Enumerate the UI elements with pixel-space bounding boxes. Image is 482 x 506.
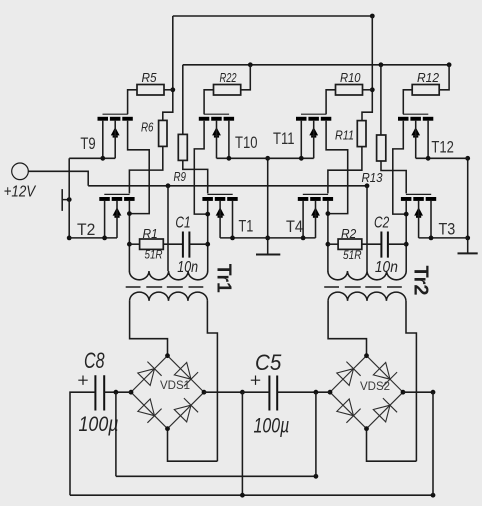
wire T4 drain down to Tr2 primary left (327, 201, 329, 272)
svg-text:T10: T10 (235, 133, 258, 152)
svg-text:R1: R1 (143, 226, 158, 241)
ground bar middle (256, 254, 280, 256)
resistor R9 (178, 134, 187, 160)
junction left rail / T2 source wire (67, 236, 72, 241)
polarity + C8 (78, 376, 87, 385)
resistor R11 (357, 121, 366, 147)
transistor T2 channel bars (99, 197, 134, 201)
wire T1 body lead (219, 201, 221, 238)
junction T2 drain / T9 drain (127, 211, 132, 216)
wire R13 bottom to T3 gate (381, 161, 406, 193)
transistor T12 channel bars (398, 117, 433, 121)
junction C5 / minus rail branch (314, 390, 319, 395)
junction VDS2 right vertex (401, 390, 406, 395)
wire top feedback line (node A) (173, 15, 372, 17)
svg-text:51R: 51R (145, 248, 163, 262)
wire left source rail (68, 158, 70, 238)
transformer Tr2 secondary winding (328, 292, 406, 301)
junction bus / Tr1 center tap (166, 183, 171, 188)
transistor T10 body-diode arrow (212, 127, 221, 135)
wire R12 right lead up to second line (439, 65, 449, 90)
junction T1 drain / C1 (205, 242, 210, 247)
wire T10 body lead (216, 121, 218, 159)
transistor T1 body-diode arrow (216, 207, 225, 215)
wire R10 right lead (363, 89, 373, 91)
wire T4 source lead (302, 201, 304, 238)
wire T1 source lead (232, 201, 234, 238)
wire second feedback line (node B) (183, 64, 449, 66)
svg-text:Tr2: Tr2 (410, 266, 432, 296)
transistor T3 gate line (406, 193, 431, 195)
transformer Tr1 core (126, 286, 204, 288)
junction T10 source (227, 156, 232, 161)
wire R11 bottom to T4 gate (328, 147, 362, 194)
wire T11 source to middle rail (268, 157, 314, 159)
svg-text:T11: T11 (273, 129, 295, 148)
transistor T9 body-diode arrow (111, 127, 120, 135)
transistor T3 channel bars (401, 197, 436, 201)
wire R10 left lead to T11 gate (326, 90, 335, 115)
wire R13 top lead (380, 65, 382, 135)
resistor R6 (159, 120, 167, 146)
svg-text:T2: T2 (77, 220, 95, 239)
wire C5 left lead (242, 391, 269, 393)
resistor R2 (338, 239, 362, 249)
transistor T11 gate line (301, 113, 326, 115)
wire T12 source to right rail (416, 157, 468, 159)
bridge rectifier VDS1 diamond (131, 356, 204, 429)
junction top line right (370, 14, 375, 19)
transformer Tr1 primary winding (129, 271, 207, 280)
transistor T1 gate line (207, 193, 232, 195)
wire +12V to bus (28, 171, 88, 186)
svg-text:100µ: 100µ (79, 413, 119, 436)
wire R22 right lead up to second line (241, 65, 251, 90)
wire T12 source lead (427, 121, 429, 159)
junction VDS1 top vertex (165, 353, 170, 358)
wire R5 right lead (164, 89, 173, 91)
junction T2 drain / R1 (127, 242, 132, 247)
junction VDS1 left vertex (129, 390, 134, 395)
svg-text:R6: R6 (141, 119, 154, 134)
wire Tr2 center tap (366, 186, 368, 271)
wire Tr1 secondary right down (207, 301, 217, 461)
wire T10 source lead (228, 121, 230, 159)
svg-text:R13: R13 (362, 170, 384, 185)
svg-text:+12V: +12V (4, 184, 37, 201)
svg-text:R12: R12 (417, 70, 440, 85)
bridge VDS2 diode 4 (373, 398, 397, 422)
wire T10 drain zigzag to T1 drain (194, 121, 207, 214)
wire T12 drain zigzag to T3 drain (393, 121, 406, 214)
junction VDS2 bottom vertex (364, 426, 369, 431)
svg-text:Tr1: Tr1 (213, 264, 235, 293)
wire T2 drain down to Tr1 primary left (128, 201, 130, 272)
junction second line right end / R12 (447, 62, 452, 67)
junction T12 source (426, 156, 431, 161)
junction T2 source (102, 236, 107, 241)
junction bus end / Tr2 center tap (365, 183, 370, 188)
svg-text:C8: C8 (84, 348, 105, 373)
transistor T10 channel bars (199, 117, 234, 121)
transistor T9 gate line (103, 113, 128, 115)
capacitor C2 plates (381, 232, 388, 258)
wire R9 top lead (182, 65, 184, 135)
transistor T9 channel bars (98, 117, 133, 121)
junction second line / R22 (248, 62, 253, 67)
wire VDS1 output down to plus rail (241, 392, 243, 495)
wire T4 source to middle rail (268, 237, 316, 239)
wire middle source rail (267, 158, 269, 254)
transistor T2 gate line (104, 193, 129, 195)
junction T1 drain / T10 drain (205, 212, 210, 217)
junction T11 source (299, 156, 304, 161)
junction R10 right / right vertical (370, 87, 375, 92)
junction T3 drain / T12 drain (404, 212, 409, 217)
terminal +12V circle (12, 163, 29, 180)
wire C8 left lead down to plus rail (70, 392, 95, 495)
junction VDS2 output corner (431, 390, 436, 395)
junction plus rail end / VDS2 output (431, 493, 436, 498)
junction stub / left rail (67, 197, 72, 202)
bridge VDS1 diode 2 (174, 363, 198, 387)
junction second line / R13 (379, 62, 384, 67)
wire T11 body lead (313, 121, 315, 159)
resistor R22 (214, 85, 241, 96)
wire Tr1 center tap (167, 186, 169, 271)
wire VDS2 bottom link (367, 429, 417, 461)
svg-text:R22: R22 (220, 70, 238, 85)
svg-text:R9: R9 (174, 169, 187, 184)
svg-text:R5: R5 (142, 70, 158, 85)
wire R12 left lead to T12 gate (403, 90, 412, 115)
transistor T11 body-diode arrow (309, 127, 318, 135)
wire right vertical from top line to R11 with jog (362, 16, 372, 121)
wire C5 minus branch down (315, 392, 317, 476)
wire R1 left lead (129, 243, 139, 245)
wire +12V bus (node VCC) (88, 185, 367, 187)
ground bar right (458, 252, 478, 254)
wire T11 source lead (300, 121, 302, 159)
wire T2 body lead (116, 201, 118, 238)
svg-text:100µ: 100µ (254, 415, 290, 438)
resistor R1 (140, 239, 164, 249)
wire R6 bottom to T2 gate (129, 146, 162, 193)
bridge VDS2 diode 1 (337, 362, 361, 386)
resistor R5 (137, 85, 164, 96)
svg-text:T12: T12 (431, 138, 454, 157)
junction minus rail end / C5 branch (314, 474, 319, 479)
svg-text:R10: R10 (340, 70, 361, 85)
junction VDS2 top vertex (364, 353, 369, 358)
wire T3 drain down to Tr2 primary right (405, 201, 407, 272)
wire T4 body lead (315, 201, 317, 238)
svg-text:VDS1: VDS1 (160, 380, 190, 392)
bridge VDS2 diode 2 (373, 363, 397, 387)
transistor T3 body-diode arrow (414, 207, 423, 215)
junction right rail top (465, 156, 470, 161)
svg-text:R11: R11 (335, 127, 354, 142)
wire R1 right lead to C1 (163, 243, 183, 245)
bridge VDS1 diode 3 (138, 399, 162, 423)
bridge rectifier VDS2 diamond (330, 356, 403, 429)
wire C5 right lead to VDS2 left (277, 391, 330, 393)
transistor T12 gate line (403, 113, 428, 115)
junction T4 drain / T11 drain (326, 211, 331, 216)
transistor T10 gate line (204, 113, 229, 115)
resistor R12 (412, 85, 439, 96)
junction T9 source (100, 156, 105, 161)
wire C8 right lead to VDS1 left (104, 391, 131, 393)
wire T9 source to left rail (69, 157, 115, 159)
wire C2 right lead (388, 243, 406, 245)
junction T1 source (230, 236, 235, 241)
svg-text:VDS2: VDS2 (360, 381, 390, 393)
wire R22 left lead to T10 gate (204, 90, 213, 115)
wire right source rail (467, 158, 469, 253)
wire Tr2 secondary right down (406, 301, 416, 461)
junction middle rail top (265, 156, 270, 161)
wire T10 source to middle rail (217, 157, 268, 159)
wire T9 source lead (102, 121, 104, 159)
svg-text:T3: T3 (439, 220, 456, 239)
junction R5 right / left vertical (170, 87, 175, 92)
wire minus branch down (115, 392, 117, 476)
wire minus rail (116, 475, 316, 477)
junction T4 source (301, 236, 306, 241)
junction T4 drain / R2 (326, 242, 331, 247)
junction plus rail / VDS1 output (240, 493, 245, 498)
capacitor C5 plates (269, 376, 277, 411)
svg-text:T9: T9 (80, 134, 95, 153)
svg-text:C1: C1 (175, 215, 190, 232)
wire T3 body lead (418, 201, 420, 238)
wire VDS2 right output (403, 391, 433, 393)
wire VDS1 right output (204, 391, 242, 393)
wire T1 drain down to Tr1 primary right (207, 201, 209, 272)
junction VDS1 bottom vertex (165, 426, 170, 431)
wire left vertical from top line to R6 with jog (163, 16, 173, 120)
polarity + C5 (251, 376, 260, 385)
connector stub pin (62, 189, 69, 211)
wire R2 left lead (328, 243, 338, 245)
svg-text:R2: R2 (341, 226, 357, 241)
transistor T2 body-diode arrow (113, 207, 122, 215)
transistor T4 gate line (303, 193, 328, 195)
wire T1 source to middle rail (220, 237, 268, 239)
junction VDS2 left vertex (328, 390, 333, 395)
junction middle rail / bottom source wire (265, 236, 270, 241)
svg-text:T4: T4 (286, 217, 303, 236)
wire R9 bottom to T1 gate (183, 160, 208, 193)
bridge VDS1 diode 4 (174, 398, 198, 422)
capacitor C8 plates (95, 375, 104, 410)
transistor T1 channel bars (202, 197, 237, 201)
bridge VDS2 diode 3 (337, 399, 361, 423)
wire R2 right lead to C2 (362, 243, 382, 245)
bridge VDS1 diode 1 (138, 362, 162, 386)
junction right rail / T3 source wire (465, 236, 470, 241)
transformer Tr2 primary winding (328, 271, 406, 280)
wire T3 source to right rail (419, 237, 468, 239)
transistor T4 channel bars (298, 197, 333, 201)
wire T2 source lead (104, 201, 106, 238)
junction T3 drain / C2 (404, 242, 409, 247)
wire Tr2 secondary left to VDS2 top (328, 301, 366, 356)
wire VDS2 output down to plus rail (432, 392, 434, 495)
svg-text:C5: C5 (255, 350, 282, 375)
wire VDS1 bottom link (168, 429, 218, 461)
wire T2 source to left rail (69, 237, 117, 239)
junction C8 / minus branch (114, 390, 119, 395)
transistor T12 body-diode arrow (411, 127, 420, 135)
wire T3 source lead (430, 201, 432, 238)
transistor T4 body-diode arrow (311, 207, 320, 215)
transformer Tr2 core (324, 286, 402, 288)
wire Tr1 secondary left to VDS1 top (130, 301, 168, 356)
junction VDS1 output / C5 left (240, 390, 245, 395)
wire T12 body lead (415, 121, 417, 159)
svg-text:T1: T1 (239, 217, 254, 236)
wire T9 drain zigzag to T2 drain (128, 121, 150, 214)
capacitor C1 plates (183, 232, 190, 258)
wire T9 body lead (114, 121, 116, 159)
resistor R13 (377, 135, 386, 161)
svg-text:51R: 51R (343, 248, 362, 262)
transistor T11 channel bars (296, 117, 331, 121)
svg-text:C2: C2 (374, 215, 389, 232)
wire T11 drain zigzag to T4 drain (326, 121, 348, 214)
junction VDS1 right vertex (202, 390, 207, 395)
wire plus rail (70, 494, 433, 496)
wire R5 left lead to T9 gate (128, 90, 137, 115)
resistor R10 (336, 85, 363, 96)
junction T3 source (429, 236, 434, 241)
wire C1 right lead (189, 243, 207, 245)
transformer Tr1 secondary winding (130, 292, 208, 301)
